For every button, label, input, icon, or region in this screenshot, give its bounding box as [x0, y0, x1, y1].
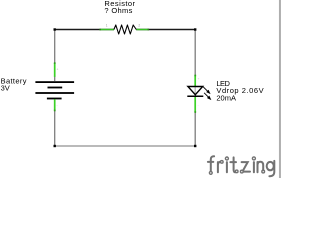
svg-text:1: 1: [106, 24, 108, 28]
svg-text:-: -: [57, 104, 58, 108]
svg-text:? Ohms: ? Ohms: [104, 6, 132, 15]
svg-text:20mA: 20mA: [216, 93, 236, 102]
svg-text:2: 2: [138, 24, 140, 28]
svg-text:-: -: [198, 103, 199, 107]
svg-text:+: +: [57, 68, 59, 72]
svg-text:+: +: [198, 77, 200, 81]
svg-text:3V: 3V: [1, 84, 10, 93]
